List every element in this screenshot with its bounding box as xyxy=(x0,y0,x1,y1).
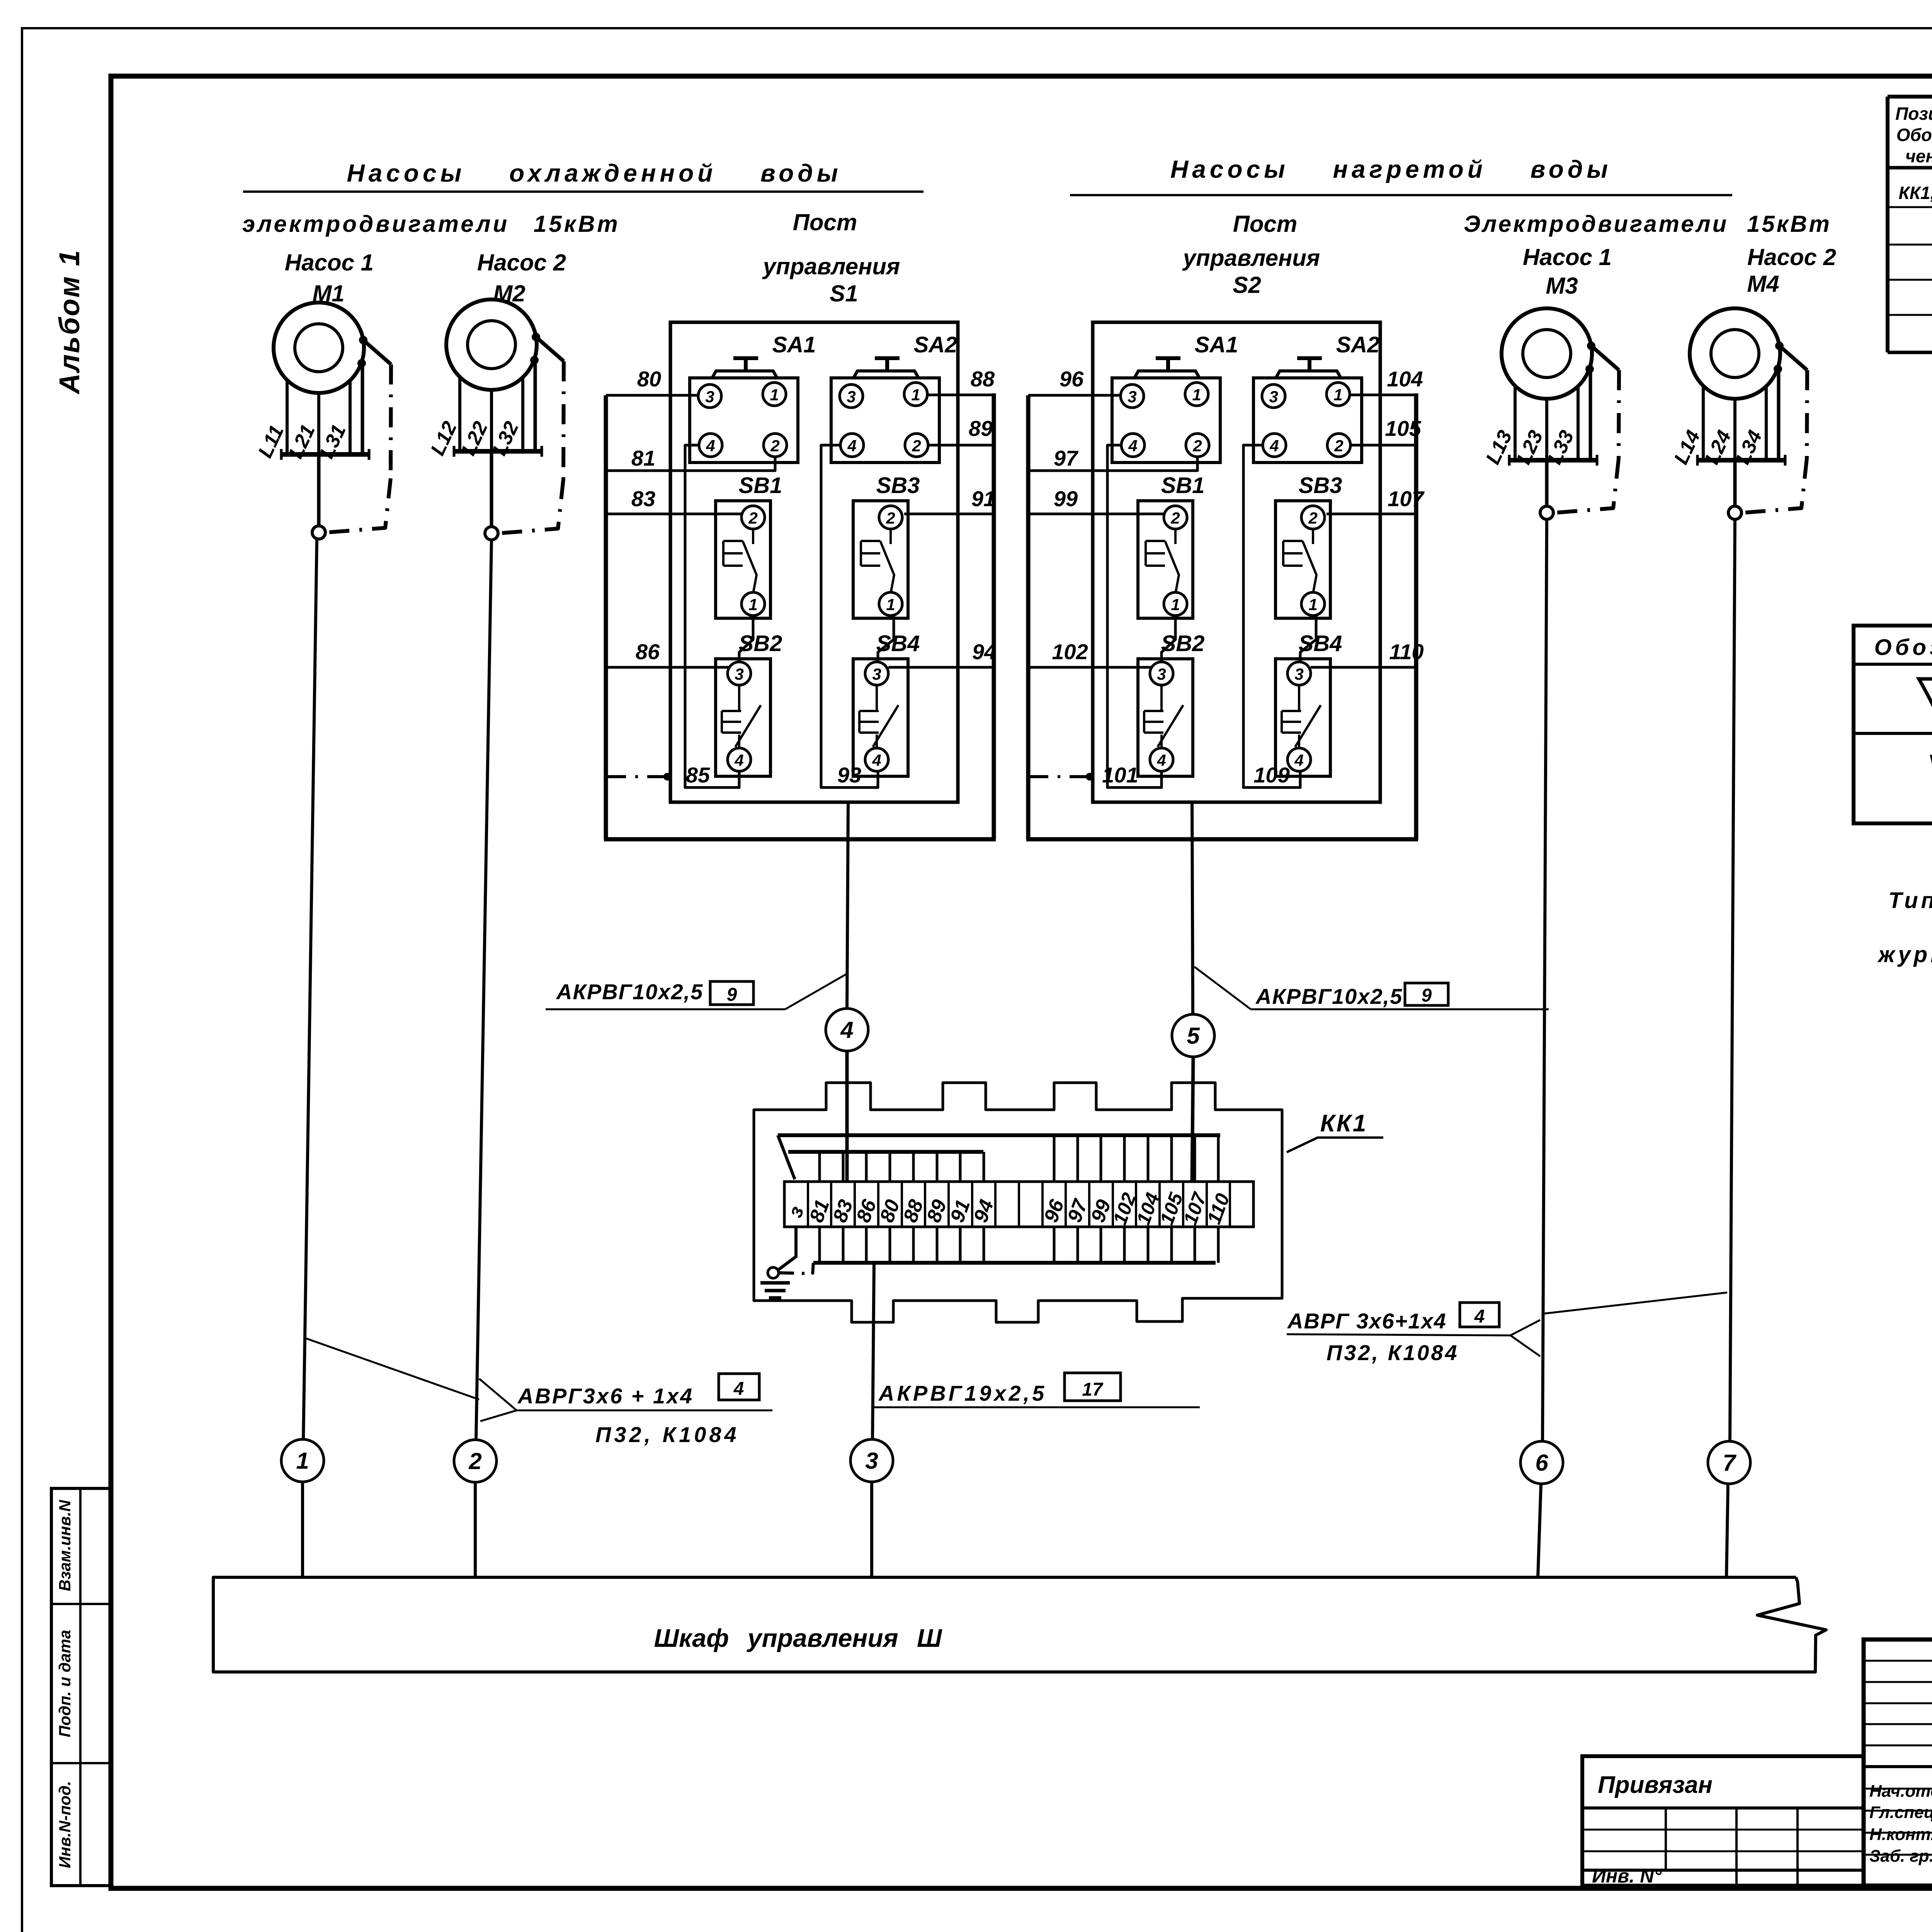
svg-text:96: 96 xyxy=(1060,367,1084,391)
svg-text:Н.конт.: Н.конт. xyxy=(1869,1825,1932,1844)
button SB4 terminal 4 xyxy=(865,748,888,771)
svg-text:109: 109 xyxy=(1253,763,1289,787)
wire between upper and lower button left column xyxy=(1162,614,1175,663)
switch SA2 terminal 1 xyxy=(1327,383,1350,406)
svg-text:4: 4 xyxy=(733,1379,744,1399)
switch SA2 terminal 3 xyxy=(840,384,863,408)
svg-text:Пост: Пост xyxy=(793,209,857,235)
KK1 lower bus bar xyxy=(813,1261,1216,1265)
svg-text:4: 4 xyxy=(1156,751,1166,769)
button SB1 box xyxy=(1138,501,1193,618)
svg-text:Насосы нагретой воды: Насосы нагретой воды xyxy=(1170,155,1612,183)
svg-text:17: 17 xyxy=(1082,1379,1104,1400)
svg-text:4: 4 xyxy=(734,751,743,769)
right bus wire xyxy=(992,393,996,839)
heading underline right xyxy=(1070,194,1732,196)
svg-text:КК1,КК2: КК1,КК2 xyxy=(1898,183,1932,203)
svg-text:2: 2 xyxy=(748,509,757,527)
right bus wire xyxy=(1414,393,1418,839)
KK1 ground dash-dot link xyxy=(813,1263,813,1274)
motor M2 ground connection dots xyxy=(532,333,540,341)
svg-text:электродвигатели 15кВт: электродвигатели 15кВт xyxy=(242,211,620,237)
svg-text:4: 4 xyxy=(872,751,881,769)
button SB4 terminal 4 xyxy=(1287,748,1311,771)
button SB2 terminal 3 xyxy=(728,662,751,685)
svg-text:2: 2 xyxy=(1308,509,1317,527)
wire between upper and lower button right column xyxy=(878,614,894,663)
svg-text:94: 94 xyxy=(972,639,996,664)
svg-text:SA2: SA2 xyxy=(914,332,957,357)
motor M4 ground connection dots xyxy=(1775,342,1784,350)
svg-text:91: 91 xyxy=(971,486,995,511)
svg-text:Альбом 1: Альбом 1 xyxy=(53,249,85,395)
svg-text:4: 4 xyxy=(1294,751,1303,769)
switch SA2 handle xyxy=(1276,371,1341,378)
svg-text:М3: М3 xyxy=(1546,273,1578,299)
button SB1 terminal 1 xyxy=(1164,592,1187,616)
wire 2 from M2 to cabinet xyxy=(476,540,492,1440)
button SB4 box xyxy=(853,659,908,776)
svg-text:105: 105 xyxy=(1385,416,1421,440)
title block frame xyxy=(1864,1639,1932,1886)
motor M2 cable end bar xyxy=(454,449,542,454)
wire 89 xyxy=(927,444,994,447)
left bus wire xyxy=(604,395,608,839)
wire 96 xyxy=(1028,394,1122,397)
switch SA2 handle xyxy=(854,371,918,378)
motor M2 symbol xyxy=(446,299,537,390)
svg-text:S1: S1 xyxy=(830,281,858,306)
svg-text:2: 2 xyxy=(1170,509,1180,527)
svg-text:SB3: SB3 xyxy=(1299,473,1342,498)
motor M3 ground connection dots xyxy=(1587,342,1595,350)
svg-text:Насос 2: Насос 2 xyxy=(477,250,566,276)
motor M1 ground connection dots xyxy=(359,336,367,344)
node circle 1 xyxy=(281,1439,324,1482)
svg-text:1: 1 xyxy=(770,386,779,404)
control cabinet box with break xyxy=(213,1577,1826,1672)
button SB3 box xyxy=(1276,501,1330,618)
button SB1 NO contact xyxy=(752,528,754,544)
node circle 4 xyxy=(826,1009,868,1051)
button SB1 terminal 2 xyxy=(1164,506,1187,529)
wire 93 return loop right xyxy=(821,445,878,787)
switch SA2 box xyxy=(831,378,939,463)
svg-text:3: 3 xyxy=(1128,388,1136,406)
switch SA2 terminal 3 xyxy=(1262,384,1285,408)
button SB4 NC contact xyxy=(1298,684,1300,711)
svg-text:3: 3 xyxy=(1269,388,1278,406)
svg-text:управления: управления xyxy=(1182,245,1320,271)
legend table frame xyxy=(1854,626,1932,823)
svg-text:104: 104 xyxy=(1387,367,1423,391)
button SB3 terminal 1 xyxy=(879,592,902,616)
left margin stamp table xyxy=(51,1488,111,1886)
wire 94 xyxy=(888,666,994,669)
KK1 ground junction circle xyxy=(768,1267,779,1278)
wire 80 xyxy=(606,394,699,397)
cable label AKRVG10x2.5 [9] right xyxy=(1194,967,1251,1009)
post output wire xyxy=(1191,802,1194,803)
switch SA2 terminal 4 xyxy=(1263,434,1286,457)
parts list table frame xyxy=(1886,97,1889,352)
switch SA1 handle xyxy=(1134,371,1199,378)
leader from wire 1 to cable label xyxy=(304,1338,479,1400)
svg-text:9: 9 xyxy=(1422,985,1432,1006)
wire 3 from KK1 to cabinet xyxy=(872,1263,874,1439)
svg-text:Пост: Пост xyxy=(1233,211,1298,237)
switch SA1 box xyxy=(1112,378,1220,463)
svg-text:110: 110 xyxy=(1389,639,1423,664)
svg-text:97: 97 xyxy=(1054,446,1079,470)
svg-text:Электродвигатели 15кВт: Электродвигатели 15кВт xyxy=(1464,211,1832,237)
svg-text:107: 107 xyxy=(1388,486,1425,511)
svg-text:3: 3 xyxy=(872,665,881,683)
motor M4 cable end bar xyxy=(1697,458,1785,463)
switch SA1 terminal 1 xyxy=(763,383,786,406)
button SB4 NC contact xyxy=(876,684,878,711)
svg-text:АВРГ3х6 + 1х4: АВРГ3х6 + 1х4 xyxy=(517,1384,694,1408)
wire 1 from M1 to cabinet xyxy=(303,539,317,1439)
svg-text:3: 3 xyxy=(865,1448,878,1474)
post output wire xyxy=(847,802,850,803)
motor M2 grounding core xyxy=(534,360,537,451)
svg-text:85: 85 xyxy=(686,763,710,787)
svg-text:Насосы охлажденной воды: Насосы охлажденной воды xyxy=(347,159,842,187)
wire 91 xyxy=(904,513,994,515)
motor M3 cable cores xyxy=(1514,386,1517,460)
wire 88 xyxy=(926,394,994,396)
svg-text:4: 4 xyxy=(1269,437,1279,455)
svg-text:93: 93 xyxy=(837,763,861,787)
switch SA1 terminal 3 xyxy=(1121,384,1144,408)
button SB2 box xyxy=(716,659,770,776)
binding table frame xyxy=(1582,1756,1864,1886)
motor M3 wire junction circle xyxy=(1545,460,1549,506)
wire 107 xyxy=(1327,513,1416,515)
svg-text:АКРВГ10х2,5: АКРВГ10х2,5 xyxy=(556,980,703,1004)
svg-text:П32, К1084: П32, К1084 xyxy=(1327,1340,1459,1365)
svg-text:SB2: SB2 xyxy=(1161,631,1205,656)
svg-text:SA2: SA2 xyxy=(1336,332,1380,357)
svg-text:89: 89 xyxy=(969,416,993,440)
svg-text:М4: М4 xyxy=(1747,271,1779,297)
terminal box KK1 outline xyxy=(754,1083,1282,1322)
motor M3 ground conductor dash-dot xyxy=(1591,346,1619,370)
svg-text:7: 7 xyxy=(1723,1450,1736,1476)
svg-text:SB1: SB1 xyxy=(1161,473,1205,498)
button SB1 box xyxy=(716,501,770,618)
svg-text:S2: S2 xyxy=(1233,272,1261,298)
svg-text:2: 2 xyxy=(770,437,779,455)
button SB3 box xyxy=(853,501,908,618)
motor M4 symbol xyxy=(1690,308,1780,399)
svg-text:1: 1 xyxy=(1333,386,1342,404)
KK1 ground terminal link xyxy=(778,1135,795,1179)
switch SA2 box xyxy=(1253,378,1362,463)
svg-text:101: 101 xyxy=(1102,763,1138,787)
wire 99 xyxy=(1028,513,1165,515)
svg-text:80: 80 xyxy=(637,367,661,391)
svg-text:Обозначение: Обозначение xyxy=(1874,635,1932,660)
switch SA1 handle xyxy=(712,371,777,378)
svg-text:4: 4 xyxy=(706,437,715,455)
motor M4 grounding core xyxy=(1777,369,1781,460)
svg-text:АКРВГ19х2,5: АКРВГ19х2,5 xyxy=(878,1381,1047,1405)
svg-text:АВРГ 3х6+1х4: АВРГ 3х6+1х4 xyxy=(1287,1309,1447,1333)
button SB2 terminal 4 xyxy=(728,748,751,771)
svg-text:2: 2 xyxy=(1192,437,1202,455)
svg-text:4: 4 xyxy=(840,1017,853,1043)
node circle 2 xyxy=(454,1440,497,1482)
switch SA1 terminal 3 xyxy=(698,384,721,408)
svg-text:Подп. и дата: Подп. и дата xyxy=(56,1630,74,1737)
heading underline left xyxy=(243,190,923,193)
switch SA1 terminal 4 xyxy=(699,434,722,457)
wire 85 return loop left xyxy=(685,445,739,787)
button SB1 terminal 1 xyxy=(742,592,765,616)
svg-text:81: 81 xyxy=(631,446,655,470)
svg-text:3: 3 xyxy=(735,665,743,683)
motor M1 ground conductor dash-dot xyxy=(363,340,391,364)
grounding conductor dash-dot into post xyxy=(1028,775,1091,778)
wire 83 xyxy=(606,513,743,515)
svg-text:99: 99 xyxy=(1054,486,1078,511)
switch SA1 terminal 4 xyxy=(1121,434,1145,457)
svg-text:2: 2 xyxy=(912,437,921,455)
svg-text:SB1: SB1 xyxy=(739,473,782,498)
leader to wire 7 xyxy=(1543,1293,1727,1314)
svg-text:9: 9 xyxy=(727,985,737,1005)
motor M1 cable end bar xyxy=(281,452,369,457)
switch SA2 terminal 1 xyxy=(904,383,927,406)
svg-text:АКРВГ10х2,5: АКРВГ10х2,5 xyxy=(1255,984,1403,1009)
svg-text:управления: управления xyxy=(762,253,900,279)
svg-text:КК1: КК1 xyxy=(1320,1110,1368,1137)
svg-text:1: 1 xyxy=(886,595,895,614)
button SB2 terminal 4 xyxy=(1150,748,1173,771)
node circle 7 xyxy=(1708,1441,1750,1484)
switch SA2 terminal 2 xyxy=(905,434,928,457)
button SB1 terminal 2 xyxy=(742,506,765,529)
svg-text:Нач.отд.: Нач.отд. xyxy=(1869,1782,1932,1801)
KK1 upper bus bar full xyxy=(778,1133,1220,1137)
switch SA2 terminal 2 xyxy=(1327,434,1350,457)
wire 86 xyxy=(606,666,729,669)
svg-text:SB3: SB3 xyxy=(876,473,920,498)
motor M1 symbol xyxy=(274,303,364,393)
motor M2 ground conductor dash-dot xyxy=(536,337,564,361)
button SB3 terminal 1 xyxy=(1301,592,1325,616)
grounding conductor dash-dot into post xyxy=(606,775,668,778)
switch SA1 terminal 2 xyxy=(1186,434,1209,457)
svg-text:6: 6 xyxy=(1535,1450,1548,1476)
svg-text:SA1: SA1 xyxy=(772,332,816,357)
wire 5 from S2 to terminal box KK1 xyxy=(1192,802,1193,1014)
switch SA1 box xyxy=(690,378,798,463)
node circle 3 xyxy=(850,1439,893,1482)
wire 4 from S1 to terminal box KK1 xyxy=(847,802,848,1009)
button SB4 box xyxy=(1276,659,1330,776)
svg-text:Насос 1: Насос 1 xyxy=(1523,244,1612,270)
KK1 terminal strip cells xyxy=(784,1182,1253,1227)
motor M3 symbol xyxy=(1502,308,1592,399)
motor M2 wire junction circle xyxy=(490,451,493,526)
svg-text:2: 2 xyxy=(1334,437,1343,455)
svg-text:Инв. N°: Инв. N° xyxy=(1592,1865,1662,1887)
motor M1 grounding core xyxy=(361,363,364,454)
node circle 5 xyxy=(1172,1014,1214,1057)
switch SA2 terminal 4 xyxy=(840,434,864,457)
node circle 6 xyxy=(1520,1441,1563,1484)
svg-text:Взам.инв.N: Взам.инв.N xyxy=(56,1499,74,1591)
svg-text:1: 1 xyxy=(1192,386,1201,404)
svg-text:SB4: SB4 xyxy=(1299,631,1342,656)
button SB2 box xyxy=(1138,659,1193,776)
motor M1 cable cores xyxy=(286,380,289,454)
motor M4 wire junction circle xyxy=(1733,460,1737,506)
button SB3 NO contact xyxy=(889,528,892,544)
bottom U bus wire xyxy=(604,837,996,842)
svg-text:Обозна-: Обозна- xyxy=(1896,125,1932,145)
switch SA1 terminal 2 xyxy=(764,434,787,457)
button SB3 terminal 2 xyxy=(1301,506,1325,529)
svg-text:SB2: SB2 xyxy=(739,631,782,656)
svg-text:3: 3 xyxy=(1157,665,1166,683)
svg-text:83: 83 xyxy=(631,486,655,511)
switch SA1 terminal 1 xyxy=(1185,383,1208,406)
svg-text:Тип и длины проводок указа: Тип и длины проводок указаны в кабельном xyxy=(1888,888,1932,913)
motor M3 grounding core xyxy=(1589,369,1592,460)
svg-text:1: 1 xyxy=(748,595,757,614)
wire 104 xyxy=(1349,394,1416,396)
svg-text:SA1: SA1 xyxy=(1195,332,1238,357)
svg-text:4: 4 xyxy=(847,437,856,455)
button SB1 NO contact xyxy=(1174,528,1177,544)
motor M1 wire junction circle xyxy=(317,454,321,526)
button SB3 NO contact xyxy=(1312,528,1314,544)
svg-text:чение: чение xyxy=(1905,146,1932,166)
button SB4 terminal 3 xyxy=(865,662,888,685)
legend symbol grounding core xyxy=(1919,679,1932,728)
svg-text:SB4: SB4 xyxy=(876,631,920,656)
svg-text:Шкаф управления Ш: Шкаф управления Ш xyxy=(654,1624,942,1652)
svg-text:2: 2 xyxy=(886,509,895,527)
svg-text:4: 4 xyxy=(1128,437,1137,455)
wire 110 xyxy=(1311,666,1416,669)
svg-text:86: 86 xyxy=(636,639,660,664)
left bus wire xyxy=(1026,395,1031,839)
motor M3 cable end bar xyxy=(1509,458,1597,463)
svg-text:1: 1 xyxy=(1308,595,1317,614)
svg-text:Инв.N-под.: Инв.N-под. xyxy=(56,1781,74,1868)
svg-text:2: 2 xyxy=(468,1448,481,1474)
svg-text:Гл.спец.: Гл.спец. xyxy=(1869,1803,1932,1822)
button SB2 terminal 3 xyxy=(1150,662,1173,685)
svg-text:5: 5 xyxy=(1187,1023,1200,1049)
KK1 upper bus bar half xyxy=(788,1150,983,1154)
motor M2 cable cores xyxy=(458,377,461,451)
control post box xyxy=(670,322,958,802)
button SB3 terminal 2 xyxy=(879,506,902,529)
svg-text:4: 4 xyxy=(1474,1306,1485,1327)
svg-text:Насос 2: Насос 2 xyxy=(1747,244,1836,270)
wire 101 return loop left xyxy=(1107,445,1162,787)
svg-text:Привязан: Привязан xyxy=(1598,1772,1713,1798)
wire 7 from M4 to cabinet xyxy=(1730,520,1735,1441)
svg-text:88: 88 xyxy=(971,367,995,391)
wire between upper and lower button right column xyxy=(1300,614,1316,663)
motor M4 ground conductor dash-dot xyxy=(1779,346,1807,370)
svg-text:1: 1 xyxy=(296,1448,309,1474)
wire between upper and lower button left column xyxy=(739,614,753,663)
wire 81 xyxy=(606,456,775,471)
button SB2 NC contact xyxy=(738,684,740,711)
bottom U bus wire xyxy=(1026,837,1418,842)
motor M4 cable cores xyxy=(1702,386,1705,460)
wire 97 xyxy=(1028,456,1197,471)
svg-text:3: 3 xyxy=(705,388,714,406)
wire 102 xyxy=(1028,666,1151,669)
ground symbol xyxy=(760,1281,790,1285)
svg-text:3: 3 xyxy=(847,388,855,406)
svg-text:Позиция: Позиция xyxy=(1895,104,1932,124)
svg-text:1: 1 xyxy=(1171,595,1180,614)
button SB4 terminal 3 xyxy=(1287,662,1311,685)
svg-text:журнале лист 10.: журнале лист 10. xyxy=(1877,942,1932,967)
svg-text:3: 3 xyxy=(1294,665,1303,683)
wire 6 from M3 to cabinet xyxy=(1543,520,1547,1441)
button SB2 NC contact xyxy=(1160,684,1163,711)
control post box xyxy=(1093,322,1380,802)
svg-text:Заб. гр.: Заб. гр. xyxy=(1869,1847,1932,1866)
wire 105 xyxy=(1349,444,1416,447)
svg-text:1: 1 xyxy=(911,386,920,404)
svg-text:Насос 1: Насос 1 xyxy=(285,250,374,276)
wire 109 return loop right xyxy=(1243,445,1300,787)
svg-text:П32, К1084: П32, К1084 xyxy=(595,1422,740,1447)
svg-text:102: 102 xyxy=(1052,639,1088,664)
